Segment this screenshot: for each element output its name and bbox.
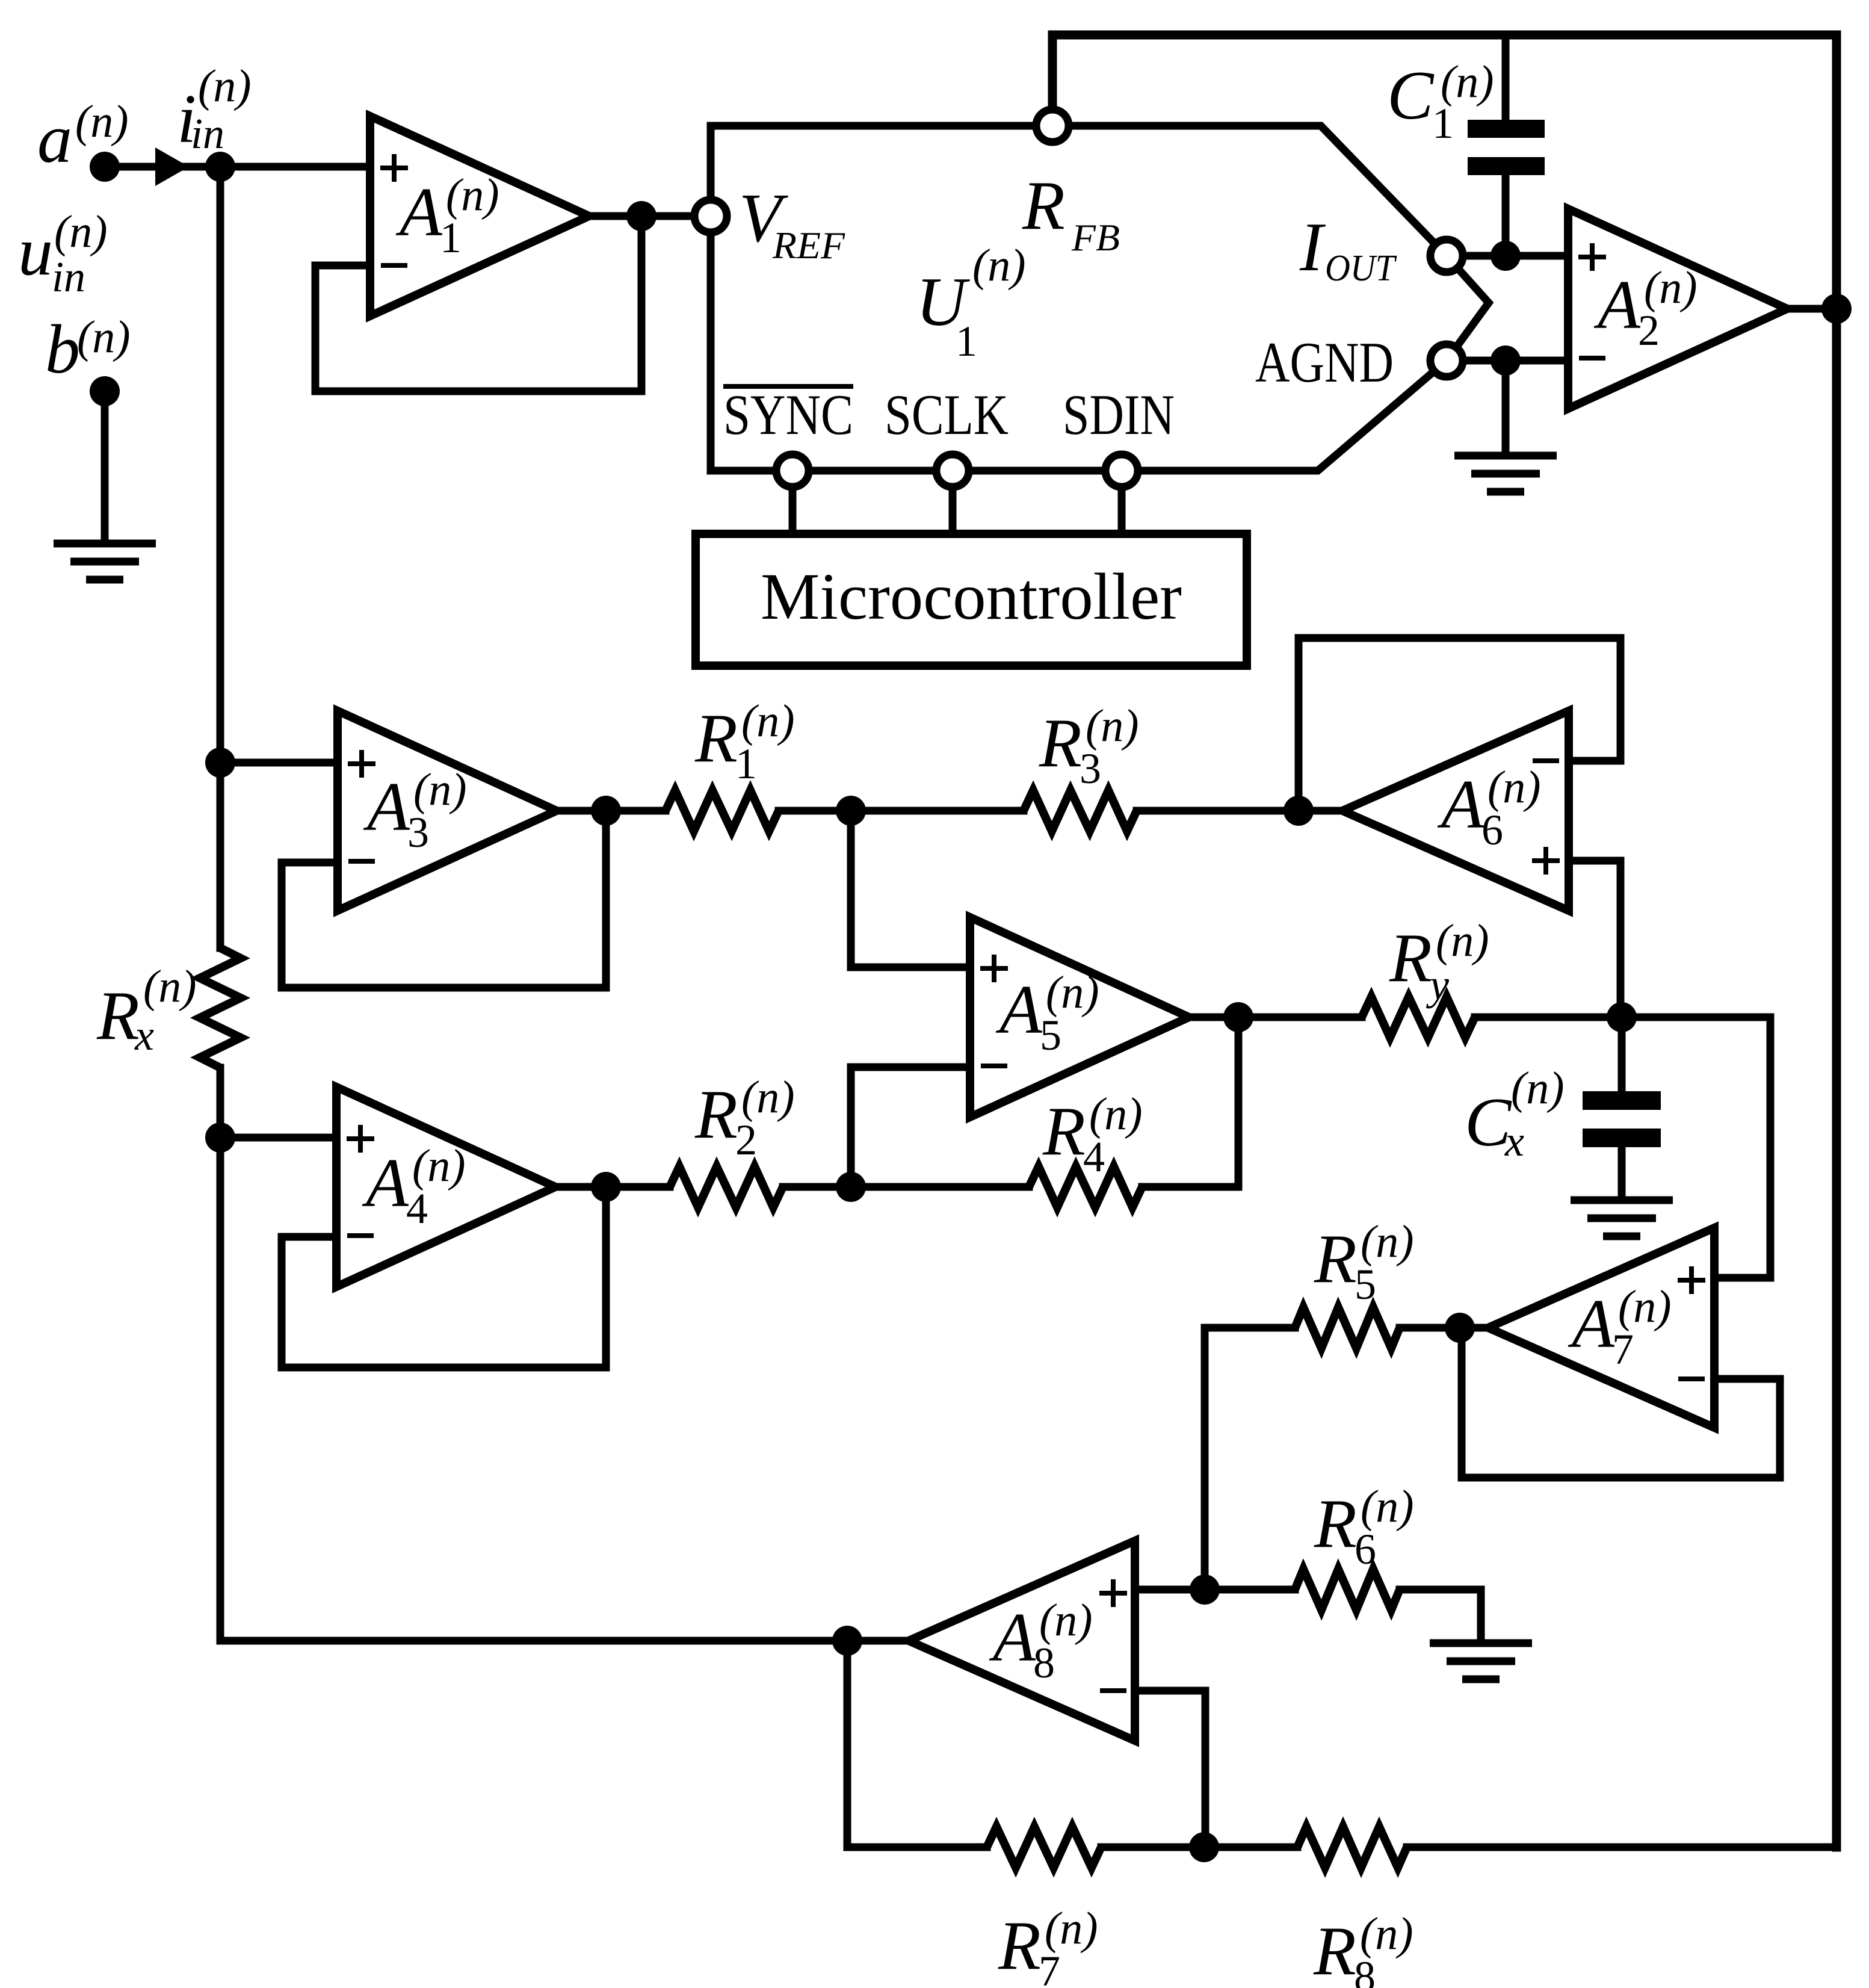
wire A4 output to R2	[555, 1183, 670, 1191]
wire R1 junction down to A5 + input	[851, 811, 970, 967]
resistor Ry	[1362, 997, 1475, 1038]
svg-text:A: A	[995, 971, 1043, 1048]
svg-text:(n): (n)	[1436, 915, 1489, 966]
svg-text:3: 3	[407, 808, 429, 856]
svg-text:(n): (n)	[77, 312, 131, 362]
wire junction to A3 + input	[220, 759, 338, 767]
svg-text:A: A	[1593, 267, 1641, 344]
svg-text:(n): (n)	[413, 764, 467, 815]
resistor R8	[1297, 1827, 1407, 1868]
svg-text:(n): (n)	[741, 696, 795, 746]
svg-text:R: R	[1314, 1485, 1357, 1562]
wire R4 right end up to A5 output	[1142, 1017, 1238, 1187]
wire A8 + input to R6 junction	[1135, 1586, 1205, 1594]
svg-text:in: in	[191, 110, 224, 158]
op-amp A8	[909, 1541, 1135, 1741]
wire A1 feedback loop	[315, 216, 641, 391]
svg-text:A: A	[395, 174, 443, 251]
wire Ry junction right and down to A7 + input	[1622, 1017, 1770, 1278]
wire R2 to R4	[783, 1183, 1029, 1191]
svg-text:(n): (n)	[1487, 762, 1541, 813]
wire R7 to R8	[1101, 1844, 1297, 1851]
label i_in^(n)	[177, 61, 252, 158]
resistor R7	[987, 1827, 1101, 1868]
svg-text:FB: FB	[1071, 216, 1120, 259]
svg-text:3: 3	[1080, 745, 1101, 793]
label Ry	[1389, 915, 1489, 1009]
svg-text:(n): (n)	[75, 96, 129, 147]
label A2	[1593, 262, 1698, 355]
svg-text:(n): (n)	[972, 240, 1026, 291]
svg-text:4: 4	[1083, 1133, 1105, 1181]
node R6 junction	[1190, 1575, 1220, 1605]
resistor R4	[1029, 1166, 1142, 1207]
label u_in^(n)	[18, 206, 108, 301]
op-amp A4	[336, 1087, 555, 1287]
svg-text:R: R	[1022, 167, 1065, 244]
wire R5 left loop from R6 junction	[1205, 1328, 1486, 1590]
wire A4 feedback loop	[282, 1187, 606, 1367]
wire A1 output to VREF pin	[589, 212, 711, 220]
label R1	[694, 696, 795, 788]
op-amp A3	[338, 711, 557, 911]
svg-text:OUT: OUT	[1325, 248, 1397, 289]
label RFB	[1022, 167, 1120, 259]
pin VREF	[694, 200, 727, 232]
capacitor Cx	[1583, 1017, 1661, 1200]
pin SCLK	[936, 454, 969, 487]
label Microcontroller	[761, 560, 1182, 633]
node A5 output dot	[1223, 1002, 1253, 1032]
node Ry/Cx junction	[1607, 1002, 1637, 1032]
label a^(n)	[37, 96, 129, 178]
label Cx	[1465, 1063, 1565, 1165]
ground below Cx	[1571, 1200, 1673, 1236]
wire R1 to R3	[779, 807, 1024, 815]
label R4	[1042, 1089, 1143, 1181]
op-amp A2	[1568, 209, 1787, 409]
label SCLK	[885, 383, 1009, 447]
svg-text:A: A	[362, 1145, 409, 1222]
label IOUT	[1299, 209, 1397, 289]
svg-text:C: C	[1387, 57, 1435, 134]
svg-text:(n): (n)	[412, 1141, 466, 1191]
svg-text:A: A	[363, 769, 410, 846]
node i_in junction dot	[205, 152, 235, 182]
node R3/A6 junction	[1284, 796, 1314, 826]
label R6	[1314, 1481, 1414, 1573]
svg-text:(n): (n)	[143, 961, 197, 1012]
svg-text:(n): (n)	[1511, 1063, 1565, 1113]
node R2/R4 junction	[836, 1172, 866, 1202]
ground below AGND	[1454, 456, 1557, 492]
pin AGND	[1430, 344, 1463, 377]
label A8	[989, 1595, 1093, 1687]
resistor R5	[1295, 1307, 1400, 1348]
op-amp A1	[370, 116, 589, 316]
wire junction to A4 + input	[220, 1134, 336, 1142]
svg-text:(n): (n)	[446, 170, 499, 220]
wire A5 output to Ry	[1189, 1014, 1362, 1021]
svg-text:2: 2	[1638, 306, 1660, 355]
wire AGND junction to ground	[1502, 361, 1510, 456]
wire bottom-left rail to A8 apex	[220, 1637, 905, 1645]
DAC U1 outline	[711, 126, 1489, 471]
wire A8 - input down to R7/R8 junction	[1135, 1691, 1205, 1847]
op-amp A7	[1488, 1228, 1714, 1428]
ground below b	[54, 543, 156, 580]
wire Ry to Cx junction	[1475, 1014, 1622, 1021]
svg-text:SCLK: SCLK	[885, 383, 1009, 447]
capacitor C1	[1468, 35, 1545, 256]
svg-text:1: 1	[956, 317, 977, 365]
wire RFB pin to top rail	[1052, 35, 1837, 126]
svg-text:x: x	[1504, 1117, 1524, 1165]
svg-text:4: 4	[406, 1184, 428, 1233]
label b^(n)	[45, 311, 131, 388]
node A1 output junction	[626, 201, 656, 231]
label AGND	[1255, 330, 1394, 394]
node a terminal dot	[90, 152, 120, 182]
wire R8 to right rail bottom corner	[1407, 1844, 1837, 1851]
svg-text:1: 1	[440, 214, 462, 262]
label VREF	[739, 180, 845, 267]
svg-text:(n): (n)	[1441, 57, 1494, 107]
label R2	[694, 1072, 795, 1164]
resistor R1	[666, 790, 779, 831]
wire R3 to A6 apex	[1137, 807, 1342, 815]
svg-text:(n): (n)	[1361, 1216, 1414, 1267]
svg-text:b: b	[45, 311, 80, 388]
svg-text:(n): (n)	[54, 206, 108, 257]
wire left rail down to bottom-left corner	[217, 167, 224, 1641]
svg-text:8: 8	[1033, 1639, 1055, 1687]
node R1/R3 junction	[836, 796, 866, 826]
svg-text:R: R	[1042, 1093, 1086, 1170]
node A2 output on rail	[1821, 294, 1852, 324]
pin SYNC	[776, 454, 809, 487]
svg-text:AGND: AGND	[1255, 330, 1394, 394]
svg-text:SDIN: SDIN	[1063, 383, 1175, 447]
node AGND junction	[1491, 345, 1521, 376]
label R7	[998, 1903, 1098, 1988]
svg-text:2: 2	[735, 1116, 757, 1164]
svg-text:(n): (n)	[1361, 1481, 1414, 1532]
svg-text:(n): (n)	[198, 61, 252, 111]
pin RFB	[1036, 110, 1069, 142]
pin IOUT	[1430, 240, 1463, 272]
label A6	[1437, 762, 1541, 854]
svg-text:in: in	[52, 253, 85, 301]
svg-text:(n): (n)	[1618, 1281, 1672, 1332]
label SYNC with overline	[723, 383, 853, 447]
svg-text:(n): (n)	[741, 1072, 795, 1123]
svg-text:6: 6	[1481, 806, 1503, 854]
svg-text:(n): (n)	[1039, 1595, 1093, 1646]
wire A6 - feedback loop to apex junction	[1299, 638, 1620, 811]
svg-text:R: R	[96, 977, 140, 1054]
svg-text:SYNC: SYNC	[723, 383, 853, 447]
op-amp A6	[1342, 711, 1569, 911]
svg-text:R: R	[1039, 705, 1082, 782]
wire IOUT pin to A2 + input	[1447, 252, 1568, 260]
svg-text:(n): (n)	[1360, 1909, 1413, 1959]
label R8	[1313, 1909, 1413, 1988]
svg-text:A: A	[1437, 766, 1484, 843]
svg-text:A: A	[989, 1599, 1036, 1676]
wire U1 pin stubs to microcontroller	[792, 471, 1122, 534]
node R7/R8 junction	[1189, 1832, 1219, 1862]
label R3	[1039, 701, 1139, 793]
svg-text:R: R	[998, 1907, 1041, 1984]
label Rx	[96, 961, 197, 1059]
label R5	[1314, 1216, 1414, 1308]
svg-text:R: R	[1314, 1221, 1357, 1298]
svg-text:(n): (n)	[1086, 701, 1139, 751]
wire A5 - input to R2 junction	[851, 1067, 970, 1187]
svg-text:5: 5	[1355, 1260, 1376, 1308]
label A4	[362, 1141, 466, 1233]
label U1	[916, 240, 1026, 365]
label A1	[395, 170, 499, 262]
label A7	[1568, 1281, 1672, 1373]
resistor Rx on left rail	[200, 948, 241, 1068]
node A8 apex junction	[832, 1626, 862, 1656]
svg-text:u: u	[18, 213, 53, 290]
wire AGND pin to A2 - input	[1447, 357, 1568, 365]
wire b to ground	[101, 391, 109, 543]
svg-text:R: R	[694, 700, 738, 777]
node A4 output dot	[591, 1172, 621, 1202]
svg-text:Microcontroller: Microcontroller	[761, 560, 1182, 633]
wire A8 apex junction down and right to R7	[847, 1641, 987, 1847]
wire R6 to resistor and down to ground	[1205, 1590, 1481, 1643]
resistor R6	[1295, 1569, 1400, 1610]
svg-text:R: R	[694, 1076, 738, 1153]
node b terminal dot	[90, 376, 120, 406]
label C1	[1387, 57, 1494, 147]
svg-text:I: I	[1299, 209, 1326, 286]
svg-text:(n): (n)	[1046, 967, 1099, 1018]
wire input junction to A1 + input	[220, 163, 370, 171]
svg-text:REF: REF	[772, 224, 845, 267]
wire A3 feedback loop	[282, 811, 606, 988]
svg-text:a: a	[37, 101, 72, 178]
wire A3 output to R1	[556, 807, 666, 815]
op-amp A5	[970, 917, 1189, 1117]
resistor R2	[670, 1166, 783, 1207]
pin SDIN	[1105, 454, 1138, 487]
svg-text:6: 6	[1355, 1525, 1376, 1573]
wire A7 - feedback loop	[1462, 1328, 1780, 1478]
svg-text:A: A	[1568, 1286, 1615, 1363]
svg-text:1: 1	[735, 740, 757, 788]
svg-text:(n): (n)	[1644, 262, 1698, 313]
wire right rail	[1832, 35, 1841, 1847]
label A5	[995, 967, 1099, 1059]
node A4 + junction on left rail	[205, 1123, 235, 1153]
svg-text:R: R	[1389, 920, 1432, 997]
node A3 + junction on left rail	[205, 748, 235, 778]
node R5/A7 apex junction	[1445, 1313, 1475, 1343]
microcontroller box	[696, 534, 1247, 666]
svg-text:R: R	[1313, 1913, 1356, 1988]
svg-text:7: 7	[1612, 1325, 1634, 1373]
svg-text:x: x	[134, 1011, 154, 1059]
label A3	[363, 764, 467, 856]
ground below R6	[1430, 1643, 1532, 1679]
wire a to input junction with current arrow	[105, 147, 220, 186]
svg-text:(n): (n)	[1045, 1903, 1098, 1954]
node IOUT/C1 junction	[1491, 241, 1521, 271]
wire A6 + input down to Ry junction	[1569, 861, 1620, 1017]
svg-text:5: 5	[1040, 1011, 1061, 1059]
node A3 output dot	[591, 796, 621, 826]
wire A2 output to right rail	[1787, 305, 1837, 313]
resistor R3	[1024, 790, 1137, 831]
label SDIN	[1063, 383, 1175, 447]
svg-text:(n): (n)	[1089, 1089, 1143, 1139]
